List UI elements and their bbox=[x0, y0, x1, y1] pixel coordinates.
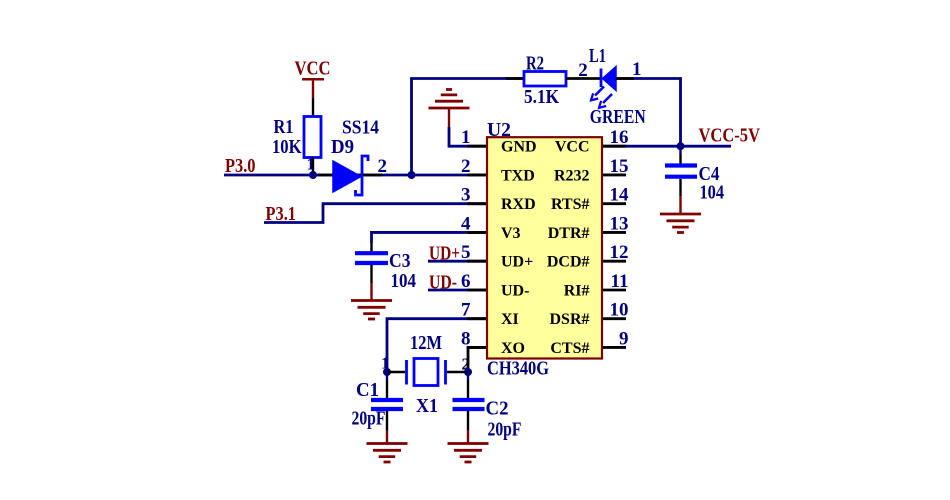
wire junction to X1 left electrode bbox=[387, 371, 405, 373]
wire L1 to VCC-5V rail bbox=[616, 79, 681, 147]
svg-text:6: 6 bbox=[461, 271, 471, 292]
svg-text:CTS#: CTS# bbox=[550, 340, 589, 357]
svg-text:CH340G: CH340G bbox=[487, 359, 549, 380]
svg-text:SS14: SS14 bbox=[342, 118, 379, 139]
ground (inverted, at U2 pin 1) bbox=[429, 90, 470, 128]
svg-text:R1: R1 bbox=[274, 117, 294, 138]
svg-text:R232: R232 bbox=[554, 167, 590, 184]
wire UD+ to U2 pin 5 bbox=[428, 260, 487, 263]
svg-text:12: 12 bbox=[610, 242, 629, 263]
svg-text:GREEN: GREEN bbox=[590, 107, 646, 128]
svg-text:5.1K: 5.1K bbox=[524, 87, 560, 108]
resistor R2 bbox=[524, 72, 566, 87]
svg-text:C2: C2 bbox=[486, 399, 509, 420]
svg-text:7: 7 bbox=[461, 300, 471, 321]
wire junction to C1 bbox=[386, 372, 388, 398]
capacitor C4 bbox=[665, 166, 697, 177]
svg-text:3: 3 bbox=[461, 185, 471, 206]
svg-text:104: 104 bbox=[700, 183, 725, 204]
svg-text:12M: 12M bbox=[410, 333, 442, 354]
wire UD- to U2 pin 6 bbox=[428, 289, 487, 292]
svg-text:14: 14 bbox=[610, 185, 630, 206]
ground (C4) bbox=[660, 214, 701, 233]
wire U2 pin 16 to VCC-5V bbox=[602, 145, 731, 148]
svg-text:4: 4 bbox=[461, 213, 471, 234]
IC U2 pin stubs right bbox=[602, 146, 626, 347]
svg-text:DSR#: DSR# bbox=[549, 311, 589, 328]
LED L1 bbox=[590, 67, 616, 109]
wire VCC-5V to C4 bbox=[679, 146, 681, 164]
svg-text:D9: D9 bbox=[331, 137, 354, 158]
svg-text:20pF: 20pF bbox=[352, 409, 386, 430]
wire U2 pin 4 to C3 bbox=[372, 232, 488, 243]
svg-text:15: 15 bbox=[610, 156, 629, 177]
capacitor C2 bbox=[453, 400, 485, 409]
svg-text:1: 1 bbox=[632, 59, 642, 80]
wire X1 right electrode to junction bbox=[447, 371, 468, 373]
resistor R1 bbox=[304, 117, 321, 158]
ground (C1) bbox=[367, 444, 408, 463]
wire R2 to L1 bbox=[566, 77, 601, 80]
svg-text:DCD#: DCD# bbox=[547, 254, 590, 271]
wire C3 to ground bbox=[370, 265, 372, 301]
svg-text:VCC-5V: VCC-5V bbox=[699, 126, 761, 147]
IC U2 body bbox=[487, 137, 602, 358]
crystal X1 bbox=[407, 359, 446, 386]
svg-text:X1: X1 bbox=[416, 396, 438, 417]
svg-text:DTR#: DTR# bbox=[548, 225, 590, 242]
junction X1 pin1 / C1 bbox=[383, 368, 391, 376]
svg-text:C3: C3 bbox=[389, 251, 411, 272]
svg-text:XI: XI bbox=[501, 311, 519, 328]
ground (C3) bbox=[351, 301, 392, 320]
svg-text:XO: XO bbox=[501, 340, 525, 357]
svg-text:104: 104 bbox=[391, 271, 417, 292]
svg-text:VCC: VCC bbox=[555, 139, 590, 156]
wire P3.0 to U2 pin 2 bbox=[224, 174, 487, 177]
wire riser to R2 bbox=[412, 79, 525, 176]
svg-text:5: 5 bbox=[461, 242, 471, 263]
wire ground to U2 pin 1 bbox=[449, 127, 487, 146]
capacitor C1 bbox=[371, 400, 403, 409]
diode D9 (schottky) bbox=[333, 156, 368, 195]
wire R1 to P3.0 net bbox=[312, 158, 314, 176]
svg-text:2: 2 bbox=[378, 156, 388, 177]
svg-text:UD+: UD+ bbox=[501, 254, 533, 271]
svg-text:2: 2 bbox=[461, 156, 471, 177]
wire C4 to ground bbox=[679, 179, 681, 214]
svg-text:11: 11 bbox=[611, 271, 629, 292]
L1 right pin stub bbox=[616, 77, 634, 80]
power symbol VCC bbox=[295, 59, 331, 99]
IC U2 pin stubs left bbox=[468, 146, 488, 347]
wire U2 pin 7 to X1 bbox=[387, 319, 487, 372]
wire C1 to ground bbox=[386, 411, 388, 444]
wire junction to C2 bbox=[467, 372, 469, 398]
svg-text:1: 1 bbox=[461, 127, 471, 148]
junction VCC-5V bbox=[677, 142, 685, 150]
wire VCC to R1 bbox=[312, 98, 314, 117]
wire P3.1 to U2 pin 3 bbox=[264, 204, 487, 223]
svg-text:C1: C1 bbox=[356, 380, 379, 401]
svg-text:10K: 10K bbox=[272, 137, 302, 158]
svg-text:V3: V3 bbox=[501, 225, 521, 242]
svg-text:RI#: RI# bbox=[564, 282, 590, 299]
svg-text:RXD: RXD bbox=[501, 196, 536, 213]
svg-text:2: 2 bbox=[578, 60, 588, 81]
svg-text:L1: L1 bbox=[589, 46, 606, 67]
svg-text:GND: GND bbox=[501, 139, 537, 156]
svg-text:VCC: VCC bbox=[295, 59, 331, 80]
ground (C2) bbox=[448, 444, 489, 463]
junction X1 pin2 / C2 bbox=[464, 368, 472, 376]
svg-text:9: 9 bbox=[619, 328, 629, 349]
capacitor C3 bbox=[355, 253, 388, 263]
svg-text:8: 8 bbox=[461, 328, 471, 349]
junction P3.0/R1 bbox=[309, 171, 317, 179]
svg-text:10: 10 bbox=[610, 300, 629, 321]
svg-text:13: 13 bbox=[610, 213, 629, 234]
junction diode output / vertical riser bbox=[408, 171, 416, 179]
R2 left pin stub bbox=[506, 77, 524, 80]
C3 top pin stub bbox=[370, 243, 372, 251]
svg-text:TXD: TXD bbox=[501, 167, 535, 184]
svg-text:20pF: 20pF bbox=[488, 420, 522, 441]
wire U2 pin 8 to X1 bbox=[468, 347, 487, 372]
svg-text:16: 16 bbox=[610, 127, 629, 148]
wire C2 to ground bbox=[467, 411, 469, 444]
svg-text:RTS#: RTS# bbox=[551, 196, 590, 213]
diode pin stubs (black) bbox=[318, 174, 382, 177]
svg-text:UD-: UD- bbox=[501, 282, 529, 299]
